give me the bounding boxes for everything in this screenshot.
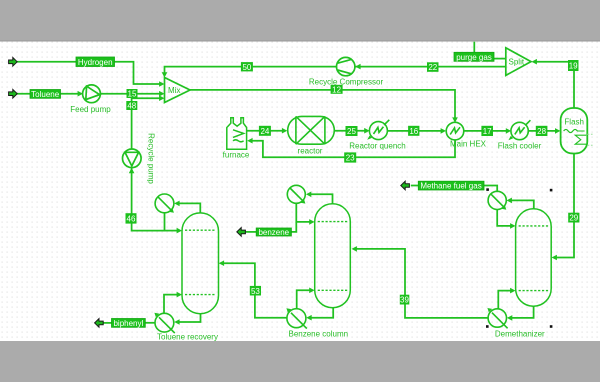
wire stream 15 [101,93,161,95]
svg-text:53: 53 [251,287,260,296]
wire boilup col1 [164,295,178,314]
arrowhead into flash [555,128,560,134]
wire stream 46 [132,168,165,230]
arrowhead into reboiler col2 [306,315,311,321]
wire bottoms col3 [511,306,533,318]
svg-text:23: 23 [346,154,355,163]
arrowhead into feed pump [78,91,83,97]
energy arrow condenser col3 [502,205,507,209]
wire stream 22 [355,66,506,68]
arrowhead reflux col2 [309,219,314,225]
wire overhead col3 [511,200,534,208]
column Demethanizer [516,209,552,306]
arrowhead into main hex left [441,128,446,134]
arrowhead into split [532,59,537,65]
stream label 24 [259,126,271,136]
arrowhead boilup col2 [309,288,314,294]
arrowhead into compressor [355,64,360,70]
feed pump P1 [83,85,101,103]
stream label 50 [241,62,253,72]
condenser col1 [155,194,174,213]
arrowhead into quench [364,128,369,134]
arrowhead into mix 15 [159,91,164,97]
svg-text:Methane fuel gas: Methane fuel gas [420,182,481,191]
svg-text:Benzene column: Benzene column [289,330,349,339]
svg-text:12: 12 [332,85,341,94]
arrowhead feed col3 [552,255,557,261]
arrowhead reflux col1 [177,228,182,234]
reboiler col2 [287,309,307,329]
flash drum Flash [561,108,588,154]
wire biphenyl stub [103,322,112,324]
wire methane product [484,186,497,192]
svg-text:48: 48 [127,102,136,111]
wire methane stub [411,185,419,187]
stream label 12 [331,85,343,95]
arrowhead into condenser col2 [306,192,311,198]
stream label 25 [346,126,358,136]
compressor Recycle Compressor [337,57,355,75]
svg-text:25: 25 [347,127,356,136]
wire stream 24 [247,130,283,132]
arrowhead feed col1 [219,260,224,266]
svg-text:Toluene: Toluene [31,90,60,99]
wire stream 25 [334,130,365,132]
svg-text:29: 29 [569,214,578,223]
svg-text:Hydrogen: Hydrogen [78,58,113,67]
arrowhead into condenser col3 [507,198,512,204]
wire purge gas [494,58,506,60]
wire bottoms col2 [311,308,333,318]
arrowhead into recycle pump [129,168,135,173]
wire reflux col3 [497,210,511,226]
reboiler col1 [155,313,175,333]
svg-text:Reactor quench: Reactor quench [349,142,405,151]
wire hydrogen feed [17,62,160,84]
svg-text:46: 46 [127,215,136,224]
wire bottoms col1 [179,314,201,323]
svg-text:39: 39 [400,296,409,305]
wire boilup col3 [498,291,511,309]
svg-text:17: 17 [483,127,492,136]
wire overhead col1 [179,203,201,213]
energy arrow reboiler col1 [154,313,159,317]
energy arrow condenser col1 [169,209,174,213]
reactor [288,116,335,144]
energy arrow condenser col2 [301,199,306,203]
heat exchanger Flash cooler [511,120,531,140]
stream label 46 [126,213,137,223]
mixer Mix [165,78,191,103]
stream label 53 [250,286,261,296]
stream label 28 [536,126,548,136]
energy arrow flash cooler [508,136,513,140]
wire benzene product [291,222,296,232]
svg-text:19: 19 [569,62,578,71]
column Toluene recovery [182,213,219,314]
wire purge gas up [473,42,475,53]
svg-text:biphenyl: biphenyl [113,319,143,328]
heat exchanger Reactor quench [369,120,389,140]
energy stubs flash [587,134,592,145]
svg-text:Recycle pump: Recycle pump [147,133,156,184]
wire benzene stub [246,231,256,233]
stream label 29 [568,213,579,223]
svg-text:reactor: reactor [298,147,323,156]
svg-text:Feed pump: Feed pump [70,105,111,114]
arrowhead into reactor [282,128,287,134]
svg-text:Toluene recovery: Toluene recovery [157,333,218,342]
wire boilup col2 [297,290,310,309]
svg-text:benzene: benzene [258,228,289,237]
stream label 48 [126,101,137,111]
energy arrow reboiler col3 [487,308,492,312]
heat exchanger Main HEX [446,122,464,140]
stream label 15 [127,89,138,99]
export arrow methane fuel gas [401,181,410,190]
arrowhead into flash cooler [506,128,511,134]
stream label 16 [408,126,419,136]
selection handle top-right [550,189,553,192]
wire stream 50 [165,67,337,73]
arrowhead into reboiler col3 [507,315,512,321]
stream label biphenyl [112,319,146,328]
wire stream 17 [464,130,506,132]
arrowhead boilup col1 [177,292,182,298]
wire reflux col1 [165,230,178,232]
import arrow toluene [9,89,18,98]
wire stream 23 [252,140,455,157]
arrowhead boilup col3 [510,288,515,294]
stream label 23 [344,152,356,162]
svg-text:Main HEX: Main HEX [450,140,487,149]
svg-text:Recycle Compressor: Recycle Compressor [309,78,384,87]
energy arrow reboiler col2 [286,308,291,312]
arrowhead into condenser col1 [174,201,179,207]
svg-text:28: 28 [537,127,546,136]
wire biphenyl [145,322,155,324]
arrowhead feed col2 [352,246,357,252]
svg-text:Demethanizer: Demethanizer [495,330,545,339]
bottom gray bar [0,341,600,382]
recycle pump P2 [123,149,142,168]
arrowhead into reboiler col1 [174,319,179,325]
arrowhead into mix 48 [159,95,164,101]
wire stream 19 [537,62,575,108]
wire toluene feed [17,93,79,95]
import arrow hydrogen [9,58,18,67]
arrowhead into main hex top [452,117,458,122]
svg-text:Flash: Flash [564,118,584,127]
arrowhead into mix hydrogen [159,81,164,87]
arrowhead into furnace [247,138,252,144]
stream label purge gas [454,52,494,62]
wire reflux col2 [296,203,310,222]
stream label Toluene [30,90,61,99]
arrowhead into mix 50 [162,72,168,77]
svg-text:16: 16 [409,127,418,136]
splitter Split [506,48,531,76]
svg-text:furnace: furnace [223,151,250,160]
svg-text:Mix: Mix [168,86,180,95]
stream label Hydrogen [76,57,115,67]
selection handle bottom-left [486,325,489,328]
svg-text:15: 15 [128,90,137,99]
wire stream 12 [190,90,455,118]
svg-text:50: 50 [242,63,251,72]
stream label benzene [256,228,291,237]
stream label Methane fuel gas [418,181,484,190]
wire stream 48 [132,98,160,149]
svg-text:Flash cooler: Flash cooler [498,142,542,151]
arrowhead reflux col3 [510,223,515,229]
reboiler col3 [488,309,508,329]
wire stream 28 [528,130,556,132]
wire overhead col2 [310,194,332,204]
wire stream 53 [224,263,288,318]
svg-text:22: 22 [428,63,437,72]
export arrow benzene [237,228,246,237]
condenser col2 [287,185,305,203]
column Benzene column [315,204,351,308]
top gray bar [0,0,600,41]
export arrow biphenyl [95,319,104,328]
svg-text:purge gas: purge gas [456,53,492,62]
energy arrow quench [367,136,372,140]
selection handle bottom-right [550,325,553,328]
stream label 22 [427,62,439,72]
stream label 39 [400,295,410,305]
furnace [227,118,247,150]
wire stream 39 [357,249,488,318]
selection handle top-left [486,188,489,191]
svg-text:Split: Split [509,58,525,67]
svg-text:24: 24 [260,127,269,136]
stream label 19 [568,60,579,71]
condenser col3 [488,191,506,209]
stream label 17 [481,126,493,136]
wire stream 29 [557,153,575,257]
wire stream 16 [387,130,441,132]
